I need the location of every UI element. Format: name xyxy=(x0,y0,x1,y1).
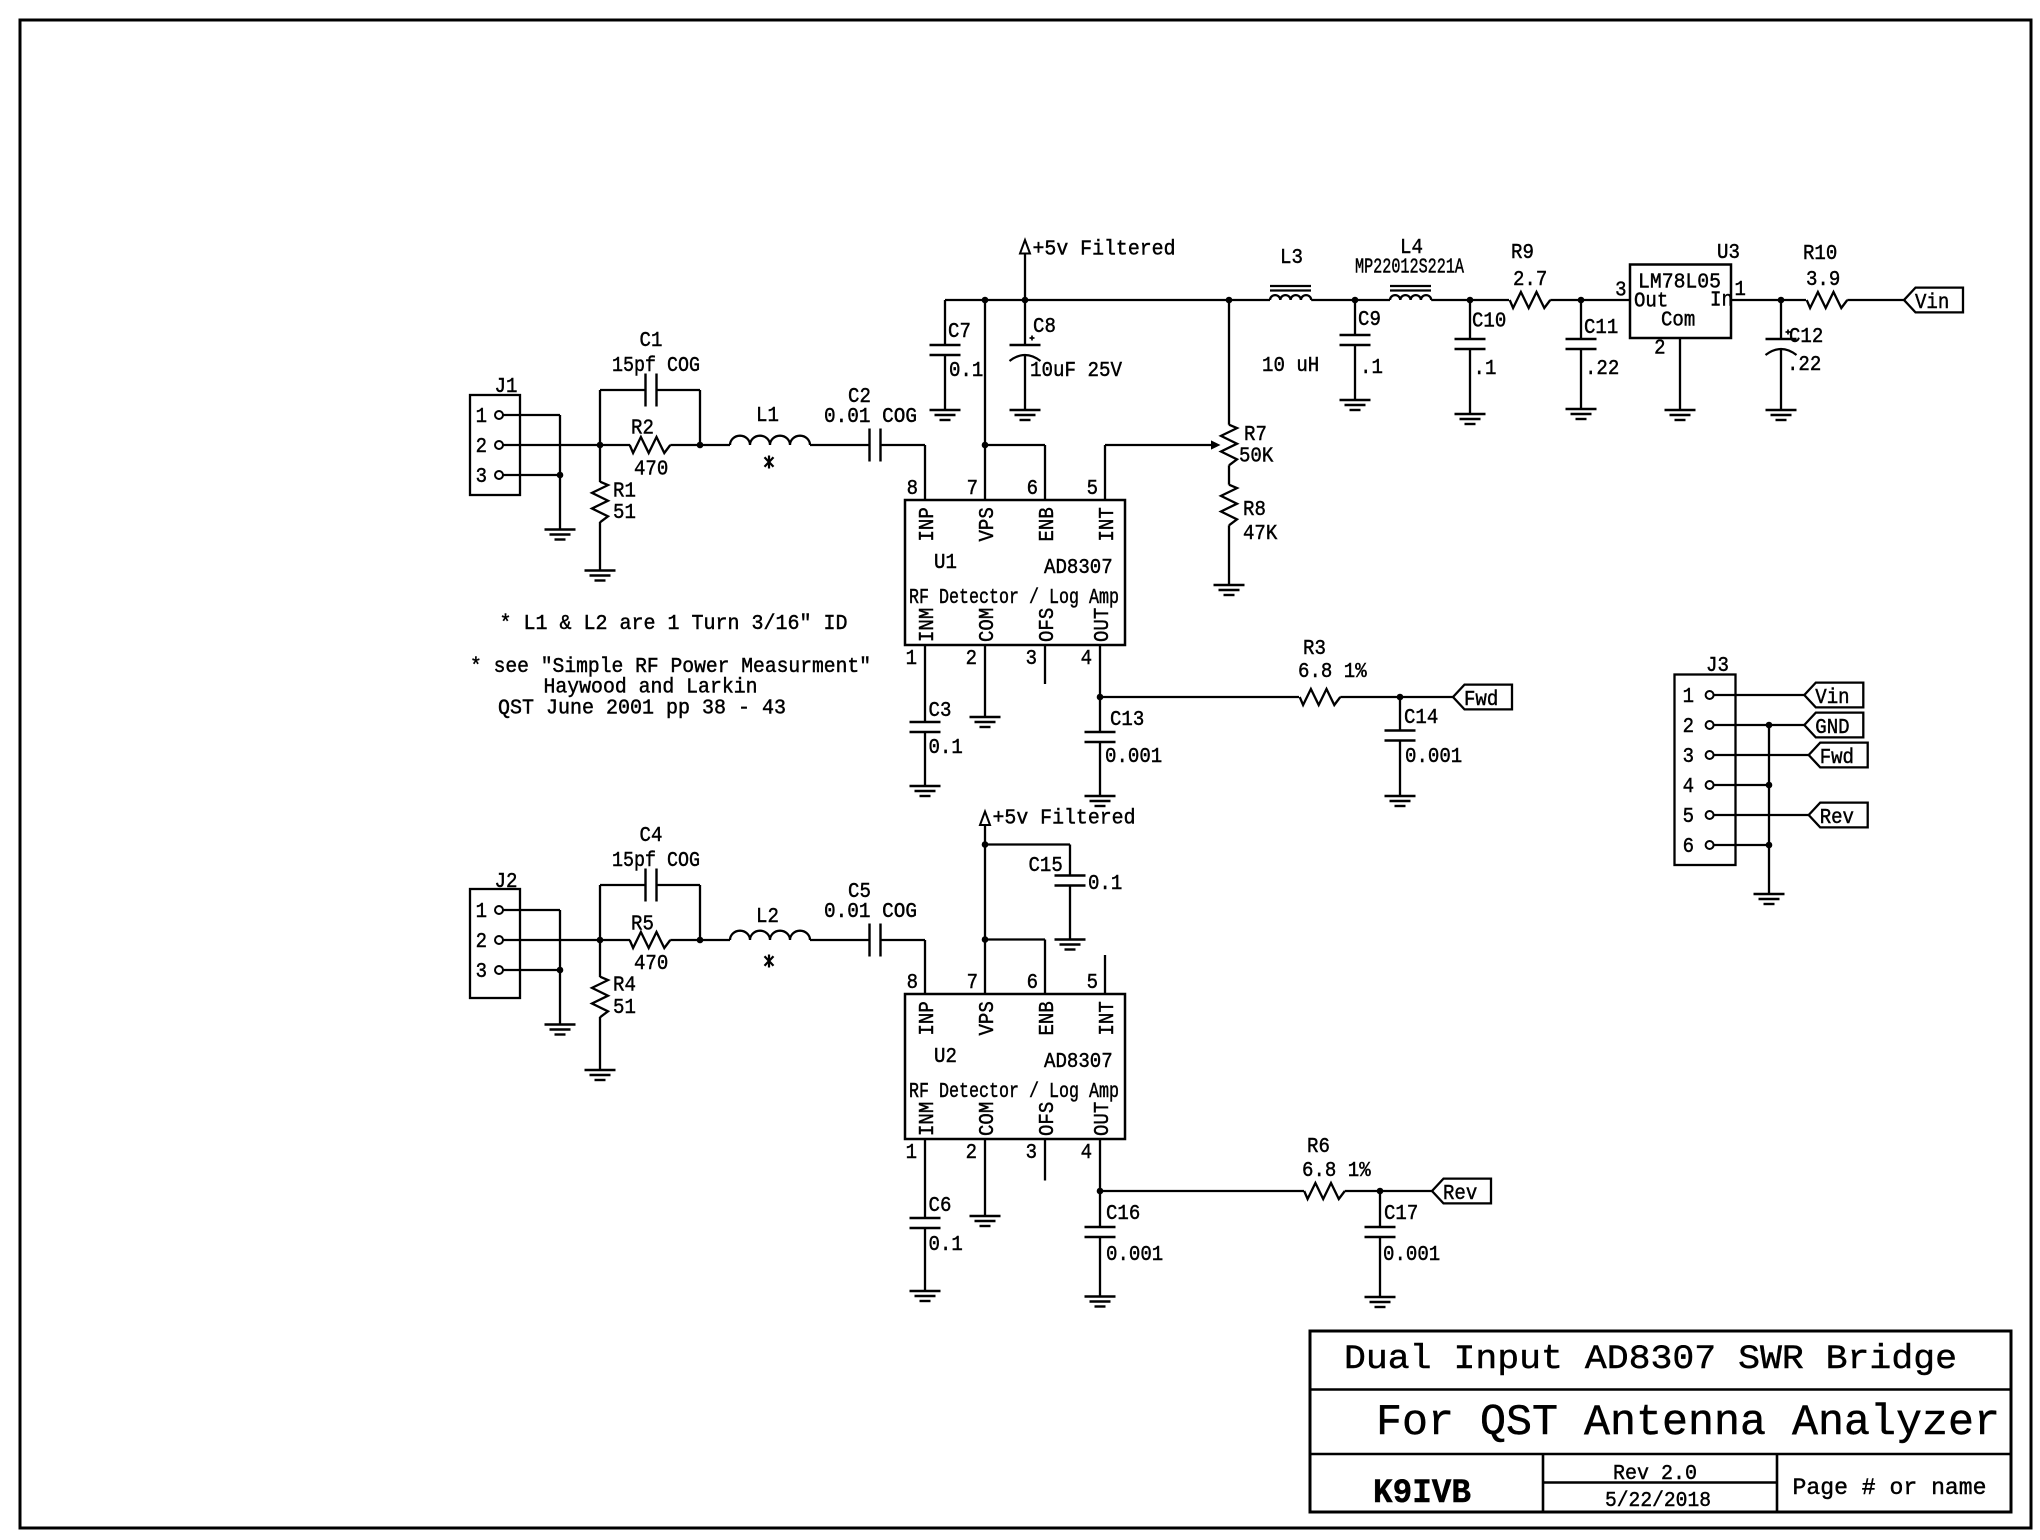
svg-text:2: 2 xyxy=(966,1142,977,1165)
node U1 OUT junction xyxy=(1097,694,1104,701)
U2 pin OFS name xyxy=(1037,1102,1060,1136)
svg-text:R4: R4 xyxy=(613,975,636,998)
wire C11 stem xyxy=(1580,300,1582,339)
wire C15 branch xyxy=(985,843,1070,845)
svg-text:R1: R1 xyxy=(613,481,636,504)
wire U1 pin2 COM to ground xyxy=(984,645,986,717)
U2 pin ENB name xyxy=(1037,1001,1060,1035)
power +5v arrow symbol xyxy=(1020,240,1030,254)
wire C9 stem xyxy=(1354,300,1356,335)
wire J1 pin1 to gnd bus xyxy=(503,414,560,416)
svg-text:6.8 1%: 6.8 1% xyxy=(1298,661,1367,684)
svg-text:C13: C13 xyxy=(1110,709,1144,732)
svg-text:0.1: 0.1 xyxy=(1088,873,1122,896)
svg-text:Rev: Rev xyxy=(1443,1183,1477,1206)
svg-text:4: 4 xyxy=(1081,1142,1092,1165)
wire U3 In to R10 xyxy=(1731,299,1806,301)
title block rev/date divider xyxy=(1543,1481,1777,1484)
ground U2 COM xyxy=(970,1215,1001,1217)
U2 pin INT name xyxy=(1097,1001,1120,1035)
capacitor C8 polarized xyxy=(1010,344,1041,346)
power rail wire xyxy=(945,299,1270,301)
svg-text:470: 470 xyxy=(634,953,668,976)
wire L2 to C5 xyxy=(810,939,870,941)
ground U3 xyxy=(1665,409,1696,411)
svg-text:1: 1 xyxy=(1683,686,1694,709)
svg-text:2: 2 xyxy=(966,648,977,671)
ground C3 xyxy=(910,785,941,787)
node U1 ENB tap junction xyxy=(982,442,989,449)
wire L4 to C10 node xyxy=(1431,299,1509,301)
wire J3 pin4 to gnd bus xyxy=(1714,784,1769,786)
wire R1 to ground xyxy=(599,522,601,571)
svg-text:4: 4 xyxy=(1081,648,1092,671)
svg-text:Com: Com xyxy=(1661,310,1695,333)
svg-text:3: 3 xyxy=(476,466,487,489)
ground C14 xyxy=(1385,795,1416,797)
svg-text:2: 2 xyxy=(476,931,487,954)
wire R8 to ground xyxy=(1228,525,1230,585)
svg-text:5: 5 xyxy=(1683,806,1694,829)
svg-text:INM: INM xyxy=(917,608,940,642)
svg-text:+5v Filtered: +5v Filtered xyxy=(993,808,1136,831)
svg-text:0.001: 0.001 xyxy=(1106,1244,1163,1267)
svg-text:R7: R7 xyxy=(1244,424,1267,447)
J1 pin 3 circle xyxy=(495,471,503,479)
svg-text:INP: INP xyxy=(917,1001,940,1035)
svg-text:C16: C16 xyxy=(1106,1203,1140,1226)
svg-text:C14: C14 xyxy=(1404,707,1438,730)
svg-text:+5v Filtered: +5v Filtered xyxy=(1033,239,1176,262)
U2 pin OUT name xyxy=(1092,1102,1115,1136)
node U2 ENB tap junction xyxy=(982,936,989,943)
svg-text:In: In xyxy=(1710,290,1733,313)
wire C12 stem xyxy=(1780,300,1782,339)
svg-text:OUT: OUT xyxy=(1092,608,1115,642)
wire J1 pin2 to node A xyxy=(503,444,600,446)
svg-text:0.1: 0.1 xyxy=(949,360,983,383)
J2 pin 2 circle xyxy=(495,936,503,944)
svg-text:OFS: OFS xyxy=(1037,608,1060,642)
wire C10 to ground xyxy=(1469,349,1471,414)
svg-text:AD8307: AD8307 xyxy=(1044,1051,1113,1074)
svg-text:C6: C6 xyxy=(929,1195,952,1218)
svg-text:Rev 2.0: Rev 2.0 xyxy=(1613,1462,1697,1486)
svg-text:ENB: ENB xyxy=(1037,1001,1060,1035)
svg-text:47K: 47K xyxy=(1243,523,1278,546)
svg-text:6: 6 xyxy=(1683,836,1694,859)
capacitor C2 xyxy=(868,429,870,462)
svg-text:C12: C12 xyxy=(1789,326,1823,349)
wire C9 to ground xyxy=(1354,345,1356,400)
ground C8 xyxy=(1010,409,1041,411)
wire C4 left riser xyxy=(599,885,601,940)
ground R4 xyxy=(585,1069,616,1071)
wire rail to R7 xyxy=(1228,300,1230,425)
node C17 junction xyxy=(1377,1188,1384,1195)
svg-text:8: 8 xyxy=(907,972,918,995)
title block row divider 1 xyxy=(1310,1388,2011,1391)
svg-text:2.7: 2.7 xyxy=(1513,269,1547,292)
svg-text:L2: L2 xyxy=(756,906,779,929)
svg-text:RF Detector / Log Amp: RF Detector / Log Amp xyxy=(909,1081,1119,1104)
ground J3 xyxy=(1754,893,1785,895)
wire R6 to C17 node xyxy=(1345,1190,1432,1192)
svg-text:R2: R2 xyxy=(631,418,654,441)
op-amp U2 AD8307 box xyxy=(905,994,1125,1139)
svg-text:Rev: Rev xyxy=(1820,807,1854,830)
node C14 junction xyxy=(1397,694,1404,701)
node J3 pin2 gnd bus junction xyxy=(1766,722,1773,729)
svg-text:50K: 50K xyxy=(1239,446,1274,469)
ground C13 xyxy=(1085,795,1116,797)
svg-text:J3: J3 xyxy=(1706,655,1729,678)
svg-text:3: 3 xyxy=(476,961,487,984)
wire OUT to R3 xyxy=(1100,696,1299,698)
inductor L2 asterisk mark xyxy=(768,955,770,968)
net flag Fwd (forward output) xyxy=(1453,685,1512,710)
svg-text:6: 6 xyxy=(1027,478,1038,501)
svg-text:0.01 COG: 0.01 COG xyxy=(824,901,917,924)
svg-text:U3: U3 xyxy=(1717,242,1740,265)
wire C14 to ground xyxy=(1399,741,1401,797)
svg-text:1: 1 xyxy=(906,648,917,671)
wire J1 pin3 to gnd bus xyxy=(503,474,560,476)
wire OUT to R6 xyxy=(1100,1190,1304,1192)
svg-text:3: 3 xyxy=(1683,746,1694,769)
svg-text:0.1: 0.1 xyxy=(929,737,963,760)
U1 pin INM name xyxy=(917,608,940,642)
wire J3 pin1 to Vin flag xyxy=(1714,694,1805,696)
svg-text:K9IVB: K9IVB xyxy=(1373,1475,1471,1513)
U2 pin INP name xyxy=(917,1001,940,1035)
capacitor C14 stem xyxy=(1399,697,1401,731)
svg-text:1: 1 xyxy=(476,901,487,924)
svg-text:RF Detector / Log Amp: RF Detector / Log Amp xyxy=(909,587,1119,610)
J2 pin 1 circle xyxy=(495,906,503,914)
connector J1 box xyxy=(470,395,520,495)
svg-text:Vin: Vin xyxy=(1915,292,1949,315)
U1 pin INP name xyxy=(917,507,940,541)
net flag Rev (reverse output) xyxy=(1432,1179,1491,1204)
resistor R4 xyxy=(592,977,608,1018)
svg-text:C7: C7 xyxy=(948,321,971,344)
svg-text:2: 2 xyxy=(1683,716,1694,739)
power +5v arrow symbol 2 xyxy=(980,812,990,826)
ground C10 xyxy=(1455,413,1486,415)
resistor R1 lead xyxy=(599,445,601,482)
node C12 rail junction xyxy=(1778,297,1785,304)
svg-text:INP: INP xyxy=(917,507,940,541)
node C11 rail junction xyxy=(1578,297,1585,304)
svg-text:15pf COG: 15pf COG xyxy=(612,850,700,873)
J3 pin 6 circle xyxy=(1706,841,1714,849)
net flag Vin at J3 xyxy=(1804,683,1863,708)
U2 pin VPS name xyxy=(977,1001,1000,1035)
node J3 pin4 gnd bus junction xyxy=(1766,782,1773,789)
svg-text:0.001: 0.001 xyxy=(1383,1244,1440,1267)
net flag Rev at J3 xyxy=(1809,803,1868,828)
J2 pin 3 circle xyxy=(495,966,503,974)
svg-text:J2: J2 xyxy=(495,871,518,894)
J3 pin 1 circle xyxy=(1706,691,1714,699)
svg-text:3.9: 3.9 xyxy=(1806,269,1840,292)
svg-text:AD8307: AD8307 xyxy=(1044,557,1113,580)
svg-text:8: 8 xyxy=(907,478,918,501)
J3 pin 4 circle xyxy=(1706,781,1714,789)
wire U3 pin2 to ground xyxy=(1679,338,1681,410)
inductor L1 asterisk mark xyxy=(768,456,770,469)
capacitor C13 stem xyxy=(1099,697,1101,732)
wire C8 stem xyxy=(1024,300,1026,345)
svg-text:C11: C11 xyxy=(1584,317,1618,340)
svg-text:VPS: VPS xyxy=(977,1001,1000,1035)
resistor R6 xyxy=(1304,1183,1345,1199)
node C8 rail junction xyxy=(1022,297,1029,304)
svg-text:6: 6 xyxy=(1027,972,1038,995)
U2 pin COM name xyxy=(977,1102,1000,1136)
svg-text:Vin: Vin xyxy=(1815,687,1849,710)
resistor R3 xyxy=(1300,689,1341,705)
svg-text:COM: COM xyxy=(977,1102,1000,1136)
net flag Fwd at J3 xyxy=(1809,743,1868,768)
U1 pin COM name xyxy=(977,608,1000,642)
svg-text:R8: R8 xyxy=(1243,499,1266,522)
svg-text:1: 1 xyxy=(906,1142,917,1165)
U1 pin ENB name xyxy=(1037,507,1060,541)
resistor R10 xyxy=(1807,292,1848,308)
svg-text:3: 3 xyxy=(1026,1142,1037,1165)
ground C7 xyxy=(930,409,961,411)
node C15 tap junction xyxy=(982,841,989,848)
svg-text:0.1: 0.1 xyxy=(929,1234,963,1257)
node J2 pins 1-3 junction xyxy=(557,967,564,974)
svg-text:U2: U2 xyxy=(934,1046,957,1069)
J3 pin 2 circle xyxy=(1706,721,1714,729)
svg-text:7: 7 xyxy=(967,478,978,501)
resistor R8 xyxy=(1221,485,1237,526)
title block vertical divider left xyxy=(1542,1454,1545,1512)
ground C6 xyxy=(910,1290,941,1292)
wire node D to L2 xyxy=(700,939,730,941)
svg-text:For QST Antenna Analyzer: For QST Antenna Analyzer xyxy=(1376,1398,2000,1448)
J3 pin 3 circle xyxy=(1706,751,1714,759)
capacitor C17 xyxy=(1365,1226,1396,1228)
svg-text:6.8 1%: 6.8 1% xyxy=(1302,1160,1371,1183)
title block row divider 2 xyxy=(1310,1453,2011,1456)
resistor R2 xyxy=(600,444,630,446)
svg-text:L3: L3 xyxy=(1280,247,1303,270)
wire J3 pin6 to gnd bus xyxy=(1714,844,1769,846)
svg-text:0.01 COG: 0.01 COG xyxy=(824,406,917,429)
svg-text:L1: L1 xyxy=(756,405,779,428)
resistor R1 xyxy=(592,482,608,523)
wire C13 to ground xyxy=(1099,742,1101,796)
R7 wiper arrowhead xyxy=(1211,440,1221,449)
J1 pin 2 circle xyxy=(495,441,503,449)
wire J2 pin2 to node C xyxy=(503,939,600,941)
capacitor C17 stem xyxy=(1379,1191,1381,1227)
svg-text:2: 2 xyxy=(476,436,487,459)
svg-text:VPS: VPS xyxy=(977,507,1000,541)
net flag GND at J3 xyxy=(1804,713,1863,738)
wire U1 pin4 OUT xyxy=(1099,645,1101,697)
svg-text:C8: C8 xyxy=(1033,316,1056,339)
svg-text:INM: INM xyxy=(917,1102,940,1136)
svg-text:470: 470 xyxy=(634,459,668,482)
wire U2 pin3 OFS stub xyxy=(1044,1139,1046,1181)
wire C2 to U1 pin 8 xyxy=(881,444,926,446)
ground C16 xyxy=(1085,1295,1116,1297)
svg-text:J1: J1 xyxy=(495,376,518,399)
U1 pin OUT name xyxy=(1092,608,1115,642)
svg-text:* L1 & L2 are 1 Turn 3/16" ID: * L1 & L2 are 1 Turn 3/16" ID xyxy=(500,613,848,636)
wire C4 right riser xyxy=(657,884,701,886)
node U2 OUT junction xyxy=(1097,1188,1104,1195)
wire C11 to ground xyxy=(1580,349,1582,409)
U1 pin INT name xyxy=(1097,507,1120,541)
svg-text:R9: R9 xyxy=(1511,242,1534,265)
node J3 pin6 gnd bus junction xyxy=(1766,842,1773,849)
capacitor C16 xyxy=(1085,1226,1116,1228)
ground J1 xyxy=(545,528,576,530)
resistor R5 xyxy=(600,939,630,941)
svg-text:U1: U1 xyxy=(934,552,957,575)
wire C12 to ground xyxy=(1780,349,1782,410)
svg-text:5: 5 xyxy=(1087,972,1098,995)
capacitor C14 xyxy=(1385,729,1416,731)
op-amp U1 AD8307 box xyxy=(905,500,1125,645)
svg-text:R10: R10 xyxy=(1803,243,1837,266)
wire U2 pin4 OUT xyxy=(1099,1139,1101,1191)
U2 pin INM name xyxy=(917,1102,940,1136)
wire J3 pin3 to Fwd flag xyxy=(1714,754,1809,756)
svg-text:1: 1 xyxy=(1735,279,1746,302)
wire U2 INT stub xyxy=(1104,955,1106,994)
wire rail left end to C7 xyxy=(944,300,946,345)
svg-text:C17: C17 xyxy=(1384,1203,1418,1226)
svg-text:OUT: OUT xyxy=(1092,1102,1115,1136)
potentiometer R7 xyxy=(1221,425,1237,466)
capacitor C10 xyxy=(1455,338,1486,340)
title block outer box xyxy=(1310,1331,2011,1512)
node C9 rail junction xyxy=(1352,297,1359,304)
wire C15 to ground xyxy=(1069,886,1071,940)
capacitor C15 xyxy=(1055,874,1086,876)
svg-text:COM: COM xyxy=(977,608,1000,642)
wire C10 stem xyxy=(1469,300,1471,339)
svg-text:Fwd: Fwd xyxy=(1464,689,1498,712)
svg-text:Haywood and Larkin: Haywood and Larkin xyxy=(544,677,758,700)
ground R8 xyxy=(1214,584,1245,586)
svg-text:R3: R3 xyxy=(1303,638,1326,661)
svg-text:1: 1 xyxy=(476,406,487,429)
wire C6 to ground xyxy=(924,1228,926,1291)
wire J3 ground bus xyxy=(1768,725,1770,894)
svg-text:Fwd: Fwd xyxy=(1820,747,1854,770)
wire J2 pin3 to gnd bus xyxy=(503,969,560,971)
ground U1 COM xyxy=(970,716,1001,718)
svg-text:7: 7 xyxy=(967,972,978,995)
wire R4 to ground xyxy=(599,1017,601,1070)
wire U1 VPS riser xyxy=(984,300,986,500)
wire L1 to C2 xyxy=(810,444,870,446)
resistor R9 xyxy=(1510,292,1551,308)
svg-text:INT: INT xyxy=(1097,507,1120,541)
svg-text:4: 4 xyxy=(1683,776,1694,799)
inductor L3 xyxy=(1270,295,1311,300)
ground C12 xyxy=(1766,409,1797,411)
svg-text:ENB: ENB xyxy=(1037,507,1060,541)
U1 pin OFS name xyxy=(1037,608,1060,642)
svg-text:C1: C1 xyxy=(640,330,663,353)
wire U1 INT riser xyxy=(1104,445,1106,500)
wire R10 to Vin flag xyxy=(1847,299,1904,301)
wire J3 pin5 to Rev flag xyxy=(1714,814,1809,816)
wire C1 left riser xyxy=(599,390,601,445)
svg-text:C10: C10 xyxy=(1472,311,1506,334)
connector J3 box xyxy=(1675,675,1736,866)
node C10 rail junction xyxy=(1467,297,1474,304)
svg-text:3: 3 xyxy=(1615,280,1626,303)
wire C16 to ground xyxy=(1099,1237,1101,1297)
wire R3 to C14 node xyxy=(1340,696,1453,698)
wire node B to L1 xyxy=(700,444,730,446)
ground C17 xyxy=(1365,1296,1396,1298)
svg-text:QST June 2001 pp 38 - 43: QST June 2001 pp 38 - 43 xyxy=(498,698,786,721)
wire U1 ENB jog xyxy=(985,444,1045,446)
node R7 rail junction xyxy=(1226,297,1233,304)
wire J1 gnd stem xyxy=(559,475,561,530)
node A junction (R1/R2/C1) xyxy=(597,442,604,449)
svg-text:5/22/2018: 5/22/2018 xyxy=(1605,1490,1711,1513)
node D junction (R5/C4/L2) xyxy=(697,937,704,944)
wire C5 to U2 pin 8 xyxy=(881,939,926,941)
inductor L1 xyxy=(730,436,810,445)
node C junction (R4/R5/C4) xyxy=(597,937,604,944)
wire R7 to R8 xyxy=(1228,465,1230,484)
svg-text:MP22012S221A: MP22012S221A xyxy=(1355,257,1464,280)
wire U2 ENB jog xyxy=(985,938,1045,940)
ground C11 xyxy=(1566,408,1597,410)
wire C3 to ground xyxy=(924,732,926,786)
svg-text:C4: C4 xyxy=(640,825,663,848)
svg-text:0.001: 0.001 xyxy=(1405,746,1462,769)
svg-text:10uF 25V: 10uF 25V xyxy=(1030,360,1122,383)
svg-text:.22: .22 xyxy=(1787,354,1821,377)
capacitor C5 xyxy=(868,924,870,957)
wire L3 to C9 node xyxy=(1311,299,1390,301)
wire U1 pin1 to C3 xyxy=(924,645,926,722)
U1 pin VPS name xyxy=(977,507,1000,541)
wire U2 pin1 to C6 xyxy=(924,1139,926,1218)
svg-text:R6: R6 xyxy=(1307,1136,1330,1159)
svg-text:51: 51 xyxy=(613,502,636,525)
node B junction (R2/C1/L1) xyxy=(697,442,704,449)
svg-text:.22: .22 xyxy=(1585,358,1619,381)
capacitor C7 xyxy=(930,344,961,346)
svg-text:OFS: OFS xyxy=(1037,1102,1060,1136)
ground C9 xyxy=(1340,399,1371,401)
capacitor C4 xyxy=(644,869,646,902)
inductor L2 xyxy=(730,931,810,940)
capacitor C1 xyxy=(644,374,646,407)
wire R9 to U3 xyxy=(1550,299,1630,301)
resistor R4 lead xyxy=(599,940,601,977)
wire J2 gnd stem xyxy=(559,970,561,1025)
ground C15 xyxy=(1055,938,1086,940)
svg-text:R5: R5 xyxy=(631,914,654,937)
